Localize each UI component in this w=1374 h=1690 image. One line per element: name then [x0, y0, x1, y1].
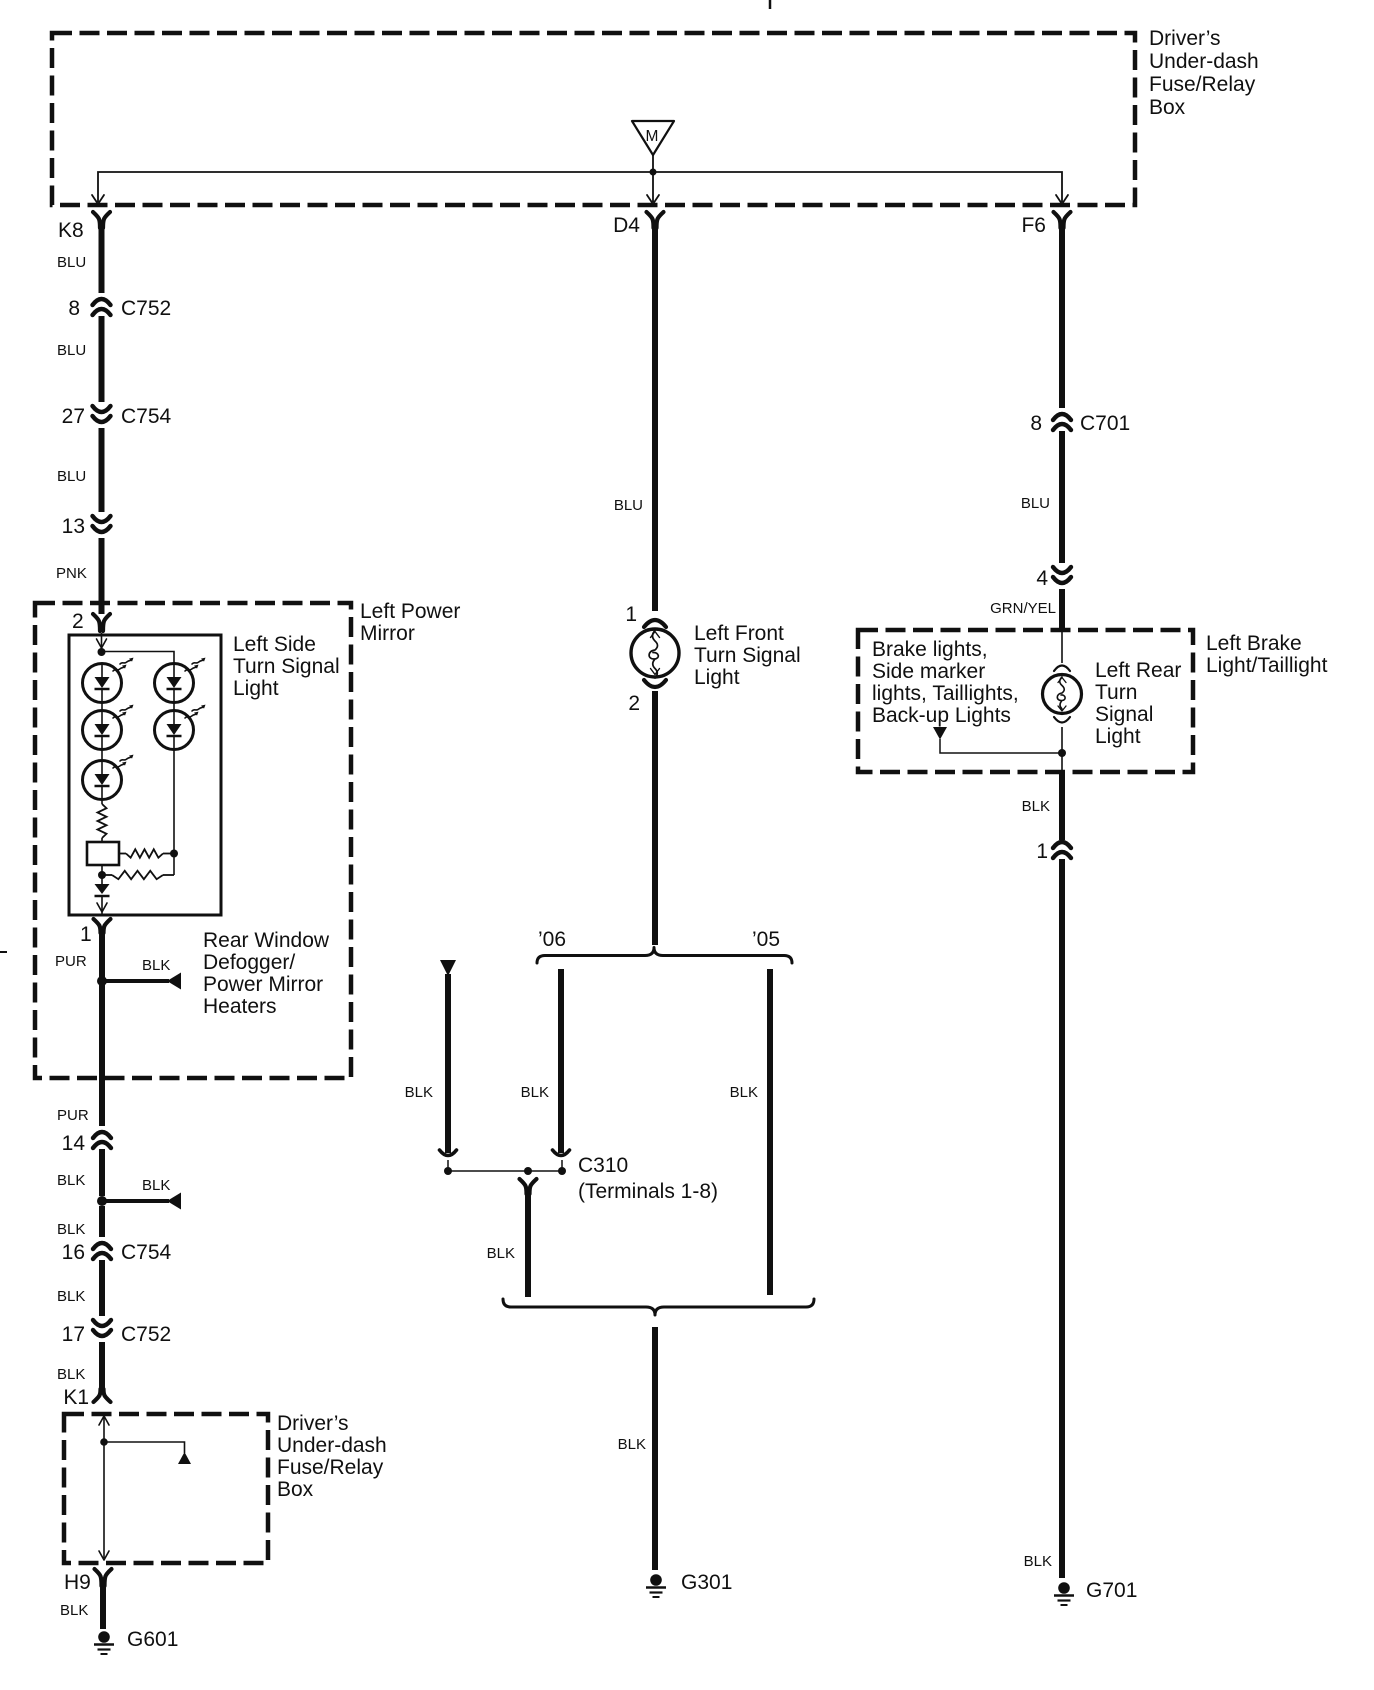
- LED D5: [155, 711, 194, 750]
- LED D1: [83, 664, 122, 703]
- lamp pin 1 chevron: [644, 620, 666, 627]
- wire BLK C310 down: [525, 1193, 531, 1297]
- label BLK: [57, 1172, 85, 1189]
- arrow into D4: [647, 195, 659, 204]
- connector 4 (chevrons down): [1053, 567, 1071, 583]
- svg-text:Under-dash: Under-dash: [277, 1434, 387, 1457]
- year split brace: [537, 948, 792, 964]
- connector pin 1 (female cup): [94, 919, 111, 933]
- svg-text:Box: Box: [277, 1478, 314, 1501]
- label C754: [121, 1241, 172, 1264]
- ground G701: [1054, 1579, 1137, 1605]
- label D4: [613, 214, 640, 237]
- eyelet wire with terminal: [440, 960, 456, 1153]
- label BLK (stub): [142, 1177, 170, 1194]
- label 1 (right): [1036, 840, 1048, 863]
- svg-text:2: 2: [628, 692, 640, 715]
- Left Brake Light/Taillight dashed box: [858, 630, 1193, 772]
- label BLK: [57, 1366, 85, 1383]
- label BLK (below C310): [487, 1245, 515, 1262]
- wire: fuse box internal bus: [98, 155, 1062, 202]
- label Brake lights Side marker lights Taillights Back-up Lights: [872, 638, 1019, 727]
- wire BLU C752-C754: [99, 316, 105, 402]
- label 13: [62, 515, 85, 538]
- scan artifact tick (top): [769, 0, 772, 9]
- brake feed terminal: [933, 727, 1062, 753]
- junction node inside LED module: [98, 648, 106, 656]
- svg-text:Side marker: Side marker: [872, 660, 985, 683]
- junction at motor lead: [650, 169, 657, 176]
- connector 16 / C754 (chevrons up): [93, 1243, 111, 1259]
- svg-text:Brake lights,: Brake lights,: [872, 638, 988, 661]
- connector below C310 (female cup): [520, 1179, 537, 1194]
- label K1: [63, 1386, 89, 1409]
- svg-text:Signal: Signal: [1095, 703, 1153, 726]
- wire PUR pin1 down: [99, 932, 105, 1126]
- scan artifact tick (left edge): [0, 951, 7, 953]
- LED D4: [155, 664, 194, 703]
- label Left Rear Turn Signal Light: [1095, 659, 1181, 748]
- svg-text:K8: K8: [58, 219, 84, 242]
- connector 27 / C754 (chevrons down): [93, 406, 111, 422]
- svg-text:BLU: BLU: [1021, 495, 1050, 512]
- svg-text:BLK: BLK: [57, 1366, 85, 1383]
- label PUR (below mirror box): [57, 1107, 89, 1124]
- label C754: [121, 405, 172, 428]
- label BLU: [57, 342, 86, 359]
- junction dots C310: [444, 1167, 566, 1175]
- wire into lamp (thin): [1061, 632, 1063, 663]
- label C752: [121, 1323, 171, 1346]
- component block: [87, 842, 119, 865]
- connector pin 2 (female cup): [93, 614, 110, 631]
- label PNK: [56, 565, 87, 582]
- svg-text:4: 4: [1036, 567, 1048, 590]
- svg-text:BLK: BLK: [618, 1436, 646, 1453]
- Left Side Turn Signal Light box: [69, 635, 221, 915]
- svg-text:PNK: PNK: [56, 565, 87, 582]
- svg-text:BLK: BLK: [487, 1245, 515, 1262]
- svg-text:G301: G301: [681, 1571, 732, 1594]
- svg-text:Light: Light: [694, 666, 740, 689]
- lamp pin 2 chevron: [644, 680, 666, 687]
- label 8: [68, 297, 80, 320]
- label BLK (eyelet): [405, 1084, 433, 1101]
- svg-text:Driver’s: Driver’s: [277, 1412, 349, 1435]
- label '05: [752, 928, 780, 951]
- wire BLU D4-lamp: [652, 227, 658, 611]
- merge brace: [503, 1299, 814, 1315]
- svg-text:M: M: [646, 128, 659, 145]
- junction dot left branch: [98, 871, 106, 879]
- wire BLK to G301: [652, 1327, 658, 1570]
- svg-text:Box: Box: [1149, 96, 1186, 119]
- Left Power Mirror dashed box: [35, 603, 351, 1078]
- junction dot right branch: [170, 850, 178, 858]
- label 16: [62, 1241, 85, 1264]
- wire BLU C754-13: [99, 428, 105, 512]
- svg-text:Turn Signal: Turn Signal: [694, 644, 801, 667]
- wire resistor to block: [101, 838, 103, 842]
- label H9: [64, 1571, 91, 1594]
- svg-text:27: 27: [62, 405, 85, 428]
- wire BLK H9-G601: [100, 1585, 106, 1629]
- connector 14 (chevrons up): [93, 1132, 111, 1148]
- label BLU: [57, 468, 86, 485]
- svg-text:BLU: BLU: [614, 497, 643, 514]
- connector K1 (male, arms down): [94, 1389, 111, 1402]
- connector 8 / C752 (chevrons up): [93, 299, 111, 315]
- svg-text:13: 13: [62, 515, 85, 538]
- svg-text:Left Power: Left Power: [360, 600, 460, 623]
- wire inside fuse box with entry arrow: [99, 1416, 109, 1442]
- svg-text:BLK: BLK: [521, 1084, 549, 1101]
- svg-text:8: 8: [68, 297, 80, 320]
- wire lamp to split: [652, 691, 658, 945]
- svg-text:2: 2: [72, 610, 84, 633]
- svg-text:Defogger/: Defogger/: [203, 951, 295, 974]
- svg-text:Fuse/Relay: Fuse/Relay: [277, 1456, 384, 1479]
- label BLK (G301): [618, 1436, 646, 1453]
- svg-text:Left Front: Left Front: [694, 622, 784, 645]
- arrow into F6: [1056, 195, 1068, 204]
- wire '06 drop: [558, 969, 564, 1153]
- label C310: [578, 1154, 628, 1177]
- label F6: [1021, 214, 1046, 237]
- label Left Brake Light/Taillight: [1206, 632, 1328, 677]
- svg-text:BLK: BLK: [60, 1602, 88, 1619]
- svg-text:PUR: PUR: [57, 1107, 89, 1124]
- internal branch to terminal: [104, 1442, 191, 1464]
- label Left Front Turn Signal Light: [694, 622, 801, 689]
- ground G301: [646, 1571, 732, 1597]
- wire inside fuse box down with exit arrow: [99, 1442, 109, 1560]
- wire block to lower junction: [101, 865, 103, 875]
- wire GRN/YEL: [1059, 589, 1065, 631]
- left front turn signal lamp: [631, 629, 679, 678]
- svg-text:Left Brake: Left Brake: [1206, 632, 1302, 655]
- svg-text:17: 17: [62, 1323, 85, 1346]
- C310 joint wire: [448, 1160, 562, 1171]
- light rays D5: [185, 705, 206, 718]
- connector 17 / C752 (chevrons down): [93, 1320, 111, 1336]
- svg-text:’05: ’05: [752, 928, 780, 951]
- svg-text:lights, Taillights,: lights, Taillights,: [872, 682, 1019, 705]
- LED D3: [83, 761, 122, 800]
- label BLK (G701): [1024, 1553, 1052, 1570]
- label BLU (right): [1021, 495, 1050, 512]
- label BLK ('06): [521, 1084, 549, 1101]
- light rays D3: [113, 755, 134, 768]
- label 14: [62, 1132, 86, 1155]
- connector cap '06: [553, 1150, 570, 1156]
- left rear turn signal lamp: [1043, 675, 1082, 714]
- svg-text:BLK: BLK: [1024, 1553, 1052, 1570]
- svg-text:BLK: BLK: [57, 1221, 85, 1238]
- svg-text:C310: C310: [578, 1154, 628, 1177]
- svg-text:BLK: BLK: [142, 1177, 170, 1194]
- svg-text:G701: G701: [1086, 1579, 1137, 1602]
- wire BLK to G701: [1059, 859, 1065, 1578]
- svg-text:BLU: BLU: [57, 468, 86, 485]
- label GRN/YEL: [990, 600, 1056, 617]
- svg-text:16: 16: [62, 1241, 85, 1264]
- svg-text:GRN/YEL: GRN/YEL: [990, 600, 1056, 617]
- label C701: [1080, 412, 1130, 435]
- wire out of LED module with arrow: [97, 896, 107, 914]
- resistor (vertical): [98, 804, 107, 838]
- wire between right LEDs: [173, 702, 175, 711]
- LED D2: [83, 711, 122, 750]
- label BLK (stub): [142, 957, 170, 974]
- label BLK ('05): [730, 1084, 758, 1101]
- label 27: [62, 405, 85, 428]
- svg-text:K1: K1: [63, 1386, 89, 1409]
- svg-text:’06: ’06: [538, 928, 566, 951]
- svg-text:(Terminals 1-8): (Terminals 1-8): [578, 1180, 718, 1203]
- wire into LED module with arrow: [97, 633, 107, 651]
- junction dot inside fuse box: [100, 1438, 108, 1446]
- Driver's Under-dash Fuse/Relay Box (bottom): [64, 1414, 268, 1563]
- svg-text:D4: D4: [613, 214, 640, 237]
- connector K8 (female cup): [93, 212, 110, 228]
- connector 13 (chevrons down): [93, 516, 111, 532]
- svg-text:C754: C754: [121, 1241, 172, 1264]
- label BLK: [57, 1221, 85, 1238]
- svg-text:BLU: BLU: [57, 254, 86, 271]
- label '06: [538, 928, 566, 951]
- label BLK: [57, 1288, 85, 1305]
- svg-text:Rear Window: Rear Window: [203, 929, 330, 952]
- wire to right LED branch: [102, 652, 175, 664]
- svg-text:Left Rear: Left Rear: [1095, 659, 1181, 682]
- label Left Side Turn Signal Light: [233, 633, 340, 700]
- wire PNK 13-mirror: [99, 538, 105, 614]
- svg-text:Power Mirror: Power Mirror: [203, 973, 323, 996]
- label lamp pin 2: [628, 692, 640, 715]
- label: Driver's Under-dash Fuse/Relay Box: [1149, 27, 1259, 119]
- wire BLK box to 1: [1059, 771, 1065, 840]
- svg-text:Back-up Lights: Back-up Lights: [872, 704, 1011, 727]
- label pin 1: [80, 923, 92, 946]
- svg-text:BLK: BLK: [1022, 798, 1050, 815]
- wire between left LEDs: [101, 702, 103, 761]
- svg-text:G601: G601: [127, 1628, 178, 1651]
- svg-text:Driver’s: Driver’s: [1149, 27, 1221, 50]
- svg-text:BLU: BLU: [57, 342, 86, 359]
- svg-text:Light: Light: [1095, 725, 1141, 748]
- splice dot with BLK stub (mirror heaters): [97, 973, 181, 990]
- label 4: [1036, 567, 1048, 590]
- svg-text:F6: F6: [1021, 214, 1046, 237]
- wire BLU C701-4: [1059, 431, 1065, 563]
- wire right branch down: [173, 749, 175, 875]
- svg-text:BLK: BLK: [405, 1084, 433, 1101]
- label C752: [121, 297, 171, 320]
- label pin 2: [72, 610, 84, 633]
- arrow into K8: [92, 195, 104, 204]
- svg-text:Light: Light: [233, 677, 279, 700]
- label K8: [58, 219, 84, 242]
- resistor (horizontal upper): [119, 849, 174, 857]
- label BLK (right): [1022, 798, 1050, 815]
- light rays D1: [113, 658, 134, 671]
- svg-text:Light/Taillight: Light/Taillight: [1206, 654, 1328, 677]
- connector cap eyelet: [440, 1150, 457, 1156]
- rear lamp pin chevron top: [1054, 666, 1070, 672]
- svg-text:C754: C754: [121, 405, 172, 428]
- svg-text:C701: C701: [1080, 412, 1130, 435]
- wire BLK C752-K1: [99, 1342, 105, 1389]
- light rays D4: [185, 658, 206, 671]
- svg-text:BLK: BLK: [730, 1084, 758, 1101]
- connector 1 (chevrons up): [1053, 842, 1071, 858]
- light rays D2: [113, 705, 134, 718]
- svg-text:C752: C752: [121, 297, 171, 320]
- rear lamp pin chevron bottom: [1054, 717, 1070, 723]
- label: Driver's Under-dash Fuse/Relay Box (bottom): [277, 1412, 387, 1501]
- connector F6 (female cup): [1054, 212, 1071, 228]
- svg-text:14: 14: [62, 1132, 86, 1155]
- label BLU (middle): [614, 497, 643, 514]
- diode: [95, 875, 110, 896]
- label Left Power Mirror: [360, 600, 460, 645]
- svg-text:BLK: BLK: [57, 1172, 85, 1189]
- svg-text:C752: C752: [121, 1323, 171, 1346]
- wire BLK splice-C754: [99, 1206, 105, 1237]
- label BLK (H9): [60, 1602, 88, 1619]
- ground G601: [94, 1628, 178, 1654]
- label Terminals 1-8: [578, 1180, 718, 1203]
- label lamp pin 1: [625, 603, 637, 626]
- svg-text:Heaters: Heaters: [203, 995, 277, 1018]
- junction dot (brake feed): [1058, 749, 1066, 757]
- svg-text:Turn Signal: Turn Signal: [233, 655, 340, 678]
- connector D4 (female cup): [647, 212, 664, 228]
- wire BLU F6-C701: [1059, 227, 1065, 408]
- label Rear Window Defogger / Power Mirror Heaters: [203, 929, 330, 1018]
- label BLU: [57, 254, 86, 271]
- svg-text:Left Side: Left Side: [233, 633, 316, 656]
- svg-text:Mirror: Mirror: [360, 622, 415, 645]
- resistor (horizontal lower): [102, 871, 174, 879]
- svg-text:1: 1: [625, 603, 637, 626]
- wire BLK 14-splice: [99, 1149, 105, 1196]
- label PUR: [55, 953, 87, 970]
- splice dot with BLK stub: [97, 1193, 181, 1210]
- svg-text:8: 8: [1030, 412, 1042, 435]
- svg-text:1: 1: [1036, 840, 1048, 863]
- svg-text:BLK: BLK: [57, 1288, 85, 1305]
- svg-text:H9: H9: [64, 1571, 91, 1594]
- svg-text:Fuse/Relay: Fuse/Relay: [1149, 73, 1256, 96]
- svg-text:BLK: BLK: [142, 957, 170, 974]
- svg-text:1: 1: [80, 923, 92, 946]
- Driver's Under-dash Fuse/Relay Box (top): [52, 33, 1135, 205]
- connector H9 (female cup): [95, 1569, 112, 1586]
- svg-text:Turn: Turn: [1095, 681, 1137, 704]
- wire lamp to junction: [1061, 727, 1063, 771]
- wire BLK C754-C752: [99, 1260, 105, 1316]
- label 17: [62, 1323, 85, 1346]
- wire LED D3 to resistor: [101, 799, 103, 804]
- svg-text:PUR: PUR: [55, 953, 87, 970]
- wire '05 drop: [767, 969, 773, 1295]
- wire BLU K8-C752: [99, 227, 105, 293]
- motor symbol M: [632, 121, 674, 155]
- label 8 (C701): [1030, 412, 1042, 435]
- svg-text:Under-dash: Under-dash: [1149, 50, 1259, 73]
- connector 8 / C701 (chevrons up): [1053, 414, 1071, 430]
